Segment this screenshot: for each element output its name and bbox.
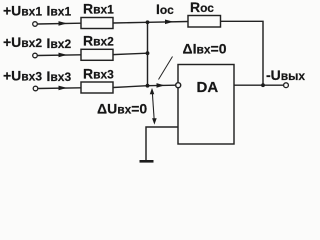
svg-text:Rвх3: Rвх3 [83,66,114,82]
op-amp U1 DA box [178,65,234,145]
summing bus vertical wire [147,22,149,85]
wire Rвх2 to bus [113,53,148,54]
output terminal [284,83,289,88]
svg-text:Iос: Iос [156,1,174,17]
ΔUвх arrowhead down [152,118,157,124]
junction node A [146,20,150,24]
inversion bubble [176,83,181,88]
svg-text:Rвх2: Rвх2 [83,33,114,49]
svg-text:Iвх3: Iвх3 [47,68,72,84]
svg-text:Iвх2: Iвх2 [47,35,72,51]
ground [140,160,154,163]
svg-text:Rос: Rос [190,0,214,15]
wire input3 to Rвх3 [38,87,81,90]
arrowhead Iвх1 [59,21,68,26]
resistor Rвх1 [81,18,113,29]
input terminal 1 [33,22,38,27]
arrowhead into inverting input [157,83,165,88]
wire node A to Roc [148,21,189,24]
summing node junction [146,84,150,88]
output junction [261,83,265,87]
resistor Rвх3 [81,82,113,93]
svg-text:+Uвх2: +Uвх2 [3,34,42,50]
wire Rвх1 to node A [113,21,148,24]
svg-text:DA: DA [197,79,219,96]
resistor Rвх2 [81,49,113,60]
svg-text:-Uвых: -Uвых [266,67,305,83]
output wire [234,84,284,86]
feedback wire top [221,21,264,85]
svg-text:ΔUвх=0: ΔUвх=0 [97,101,147,117]
wire Rвх3 to summing node [113,86,148,88]
ΔUвх double arrow shaft [152,91,154,122]
input terminal 2 [33,53,38,58]
svg-text:+Uвх3: +Uвх3 [3,68,42,84]
ΔUвх arrowhead up [150,88,155,94]
wire input1 to Rвх1 [37,22,81,25]
arrowhead Ioc [165,20,174,25]
arrowhead Iвх3 [59,86,68,91]
wire input2 to Rвх2 [37,54,81,57]
junction row2 [146,51,150,55]
svg-text:ΔIвх=0: ΔIвх=0 [183,41,227,57]
resistor Roc [188,16,221,28]
arrowhead Iвх2 [59,53,68,58]
non-inverting input wire [146,127,178,160]
svg-text:Rвх1: Rвх1 [83,1,114,17]
svg-text:Iвх1: Iвх1 [47,3,72,19]
wire summing node to op-amp inverting input [148,84,176,87]
svg-text:+Uвх1: +Uвх1 [3,3,42,19]
input terminal 3 [33,86,38,91]
leader line for ΔIвх=0 [159,57,173,80]
